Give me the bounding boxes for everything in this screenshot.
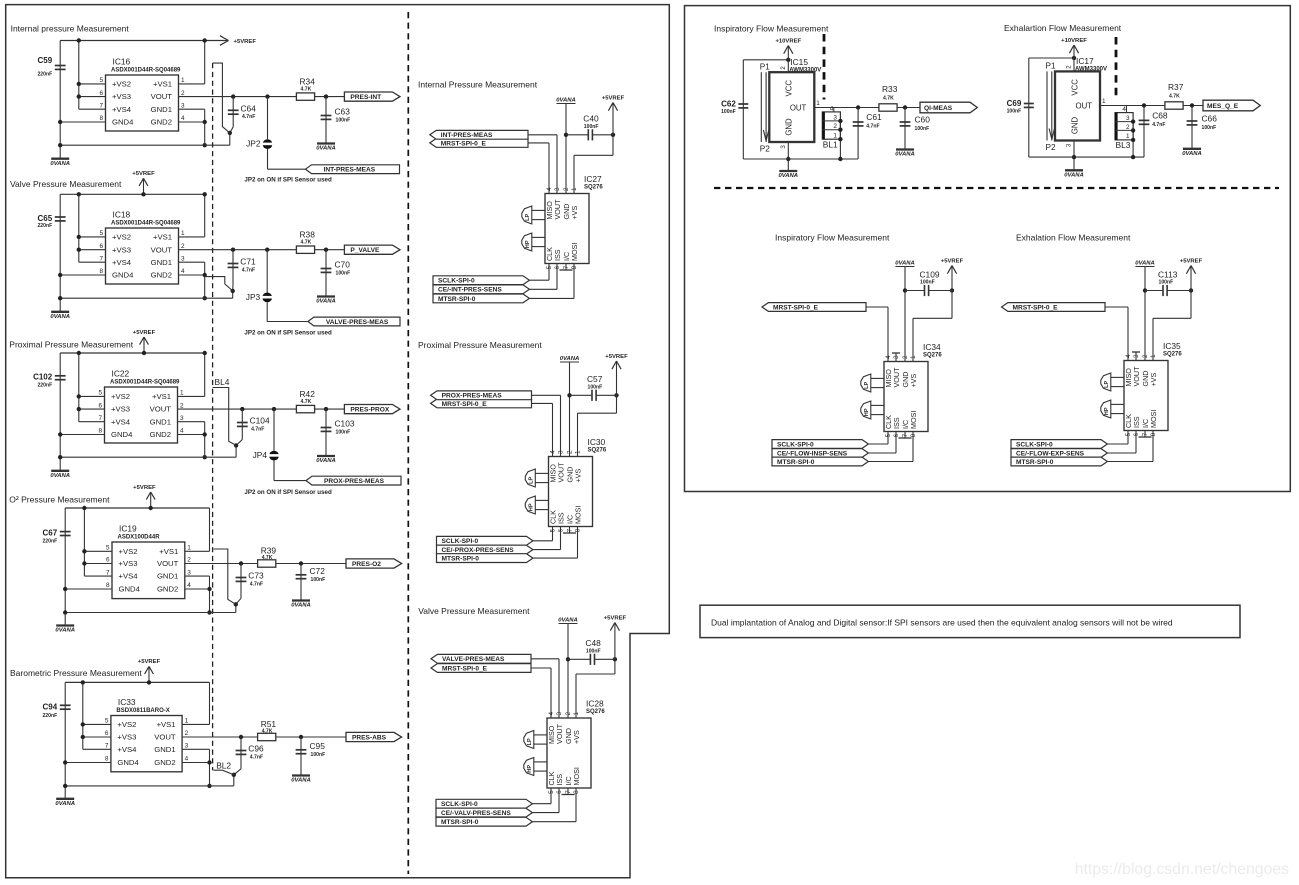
svg-text:+VS3: +VS3 — [111, 405, 130, 414]
svg-text:4: 4 — [181, 268, 185, 275]
svg-text:LP: LP — [527, 738, 533, 745]
svg-text:IC19: IC19 — [119, 524, 137, 534]
svg-text:+VS3: +VS3 — [112, 92, 131, 101]
svg-text:Exhalartion Flow Measurement: Exhalartion Flow Measurement — [1004, 23, 1122, 33]
svg-text:4.7nF: 4.7nF — [242, 114, 255, 120]
svg-text:6: 6 — [893, 433, 900, 437]
svg-text:4: 4 — [180, 428, 184, 435]
svg-text:PROX-PRES-MEAS: PROX-PRES-MEAS — [442, 393, 503, 400]
svg-text:3: 3 — [1126, 115, 1130, 122]
svg-text:8: 8 — [105, 756, 109, 763]
svg-text:VOUT: VOUT — [154, 733, 176, 742]
svg-text:VOUT: VOUT — [557, 462, 566, 483]
svg-text:C57: C57 — [587, 374, 603, 384]
svg-text:100nF: 100nF — [588, 384, 603, 390]
svg-text:2: 2 — [563, 187, 570, 191]
svg-text:4: 4 — [181, 115, 185, 122]
svg-text:100nF: 100nF — [311, 752, 326, 758]
svg-text:VCC: VCC — [1070, 79, 1079, 96]
svg-text:0VANA: 0VANA — [1135, 260, 1155, 266]
svg-text:MES_Q_E: MES_Q_E — [1207, 103, 1239, 110]
svg-text:INT-PRES-MEAS: INT-PRES-MEAS — [441, 132, 493, 139]
svg-text:ISS: ISS — [557, 512, 566, 524]
svg-text:MOSI: MOSI — [570, 243, 579, 261]
svg-text:C59: C59 — [38, 56, 53, 65]
svg-text:220nF: 220nF — [37, 223, 52, 229]
svg-text:2: 2 — [1142, 354, 1149, 358]
svg-text:JP2: JP2 — [246, 139, 261, 149]
svg-text:Dual implantation of Analog an: Dual implantation of Analog and Digital … — [711, 618, 1173, 628]
svg-text:+VS: +VS — [574, 469, 583, 483]
svg-text:+VS3: +VS3 — [117, 733, 136, 742]
svg-text:5: 5 — [99, 230, 103, 237]
svg-text:ASDX001D44R-SQ04689: ASDX001D44R-SQ04689 — [110, 379, 180, 385]
svg-text:1: 1 — [1102, 98, 1106, 105]
svg-text:3: 3 — [185, 743, 189, 750]
svg-text:MRST-SPI-0_E: MRST-SPI-0_E — [773, 304, 819, 311]
svg-text:Barometric Pressure Measuremen: Barometric Pressure Measurement — [10, 668, 142, 678]
svg-text:CE/-VALV-PRES-SENS: CE/-VALV-PRES-SENS — [441, 810, 511, 817]
svg-text:+VS1: +VS1 — [157, 720, 176, 729]
svg-text:P1: P1 — [760, 62, 770, 71]
svg-text:MRST-SPI-0_E: MRST-SPI-0_E — [441, 140, 487, 147]
svg-text:+VS3: +VS3 — [119, 559, 138, 568]
svg-text:C113: C113 — [1158, 269, 1178, 279]
svg-text:5: 5 — [548, 790, 555, 794]
svg-text:+VS4: +VS4 — [117, 745, 137, 754]
svg-text:ISS: ISS — [892, 417, 901, 429]
svg-text:R37: R37 — [1168, 82, 1184, 92]
svg-text:+VS1: +VS1 — [159, 547, 178, 556]
svg-text:+10VREF: +10VREF — [775, 39, 801, 45]
svg-text:+VS4: +VS4 — [112, 105, 132, 114]
svg-text:SQ276: SQ276 — [584, 184, 603, 190]
svg-text:+VS: +VS — [909, 374, 918, 388]
svg-text:8: 8 — [106, 582, 110, 589]
svg-text:220nF: 220nF — [42, 538, 57, 544]
svg-text:+5VREF: +5VREF — [133, 330, 156, 336]
svg-text:C64: C64 — [241, 104, 257, 114]
svg-text:VOUT: VOUT — [150, 405, 172, 414]
svg-text:6: 6 — [99, 90, 103, 97]
svg-text:VOUT: VOUT — [151, 245, 173, 254]
svg-text:+5VREF: +5VREF — [132, 171, 155, 177]
svg-text:100nF: 100nF — [1159, 280, 1174, 286]
svg-text:+VS: +VS — [572, 730, 581, 744]
svg-text:+5VREF: +5VREF — [138, 659, 161, 665]
svg-text:220nF: 220nF — [37, 382, 52, 388]
svg-text:7: 7 — [902, 433, 909, 437]
svg-text:1: 1 — [910, 355, 917, 359]
svg-text:5: 5 — [105, 718, 109, 725]
svg-text:0VANA: 0VANA — [316, 146, 336, 152]
svg-text:4: 4 — [546, 187, 553, 191]
svg-text:100nF: 100nF — [1202, 125, 1217, 131]
svg-text:GND2: GND2 — [151, 118, 172, 127]
svg-text:HP: HP — [1104, 407, 1110, 415]
svg-text:4.7K: 4.7K — [301, 239, 312, 245]
svg-text:7: 7 — [105, 743, 109, 750]
svg-text:1: 1 — [816, 100, 820, 107]
svg-text:4.7K: 4.7K — [262, 729, 273, 735]
svg-text:6: 6 — [556, 790, 563, 794]
svg-text:2: 2 — [1066, 65, 1073, 69]
svg-text:+5VREF: +5VREF — [604, 615, 627, 621]
svg-text:0VANA: 0VANA — [50, 473, 70, 479]
svg-text:LP: LP — [864, 381, 870, 388]
svg-text:4.7K: 4.7K — [262, 555, 273, 561]
svg-text:100nF: 100nF — [586, 648, 601, 654]
svg-text:R33: R33 — [882, 84, 898, 94]
svg-text:JP2 on ON if SPI Sensor used: JP2 on ON if SPI Sensor used — [244, 177, 332, 184]
svg-text:BSDX0811BARO-X: BSDX0811BARO-X — [116, 708, 169, 714]
svg-text:4: 4 — [885, 355, 892, 359]
svg-text:Proximal Pressure Measurement: Proximal Pressure Measurement — [418, 340, 542, 350]
svg-text:100nF: 100nF — [336, 118, 351, 124]
svg-text:P1: P1 — [1046, 62, 1056, 71]
svg-text:VALVE-PRES-MEAS: VALVE-PRES-MEAS — [442, 656, 505, 663]
svg-text:ASDX100D44R: ASDX100D44R — [118, 534, 161, 540]
svg-text:3: 3 — [556, 712, 563, 716]
svg-text:2: 2 — [780, 66, 787, 70]
svg-text:MRST-SPI-0_E: MRST-SPI-0_E — [1013, 304, 1059, 311]
svg-text:6: 6 — [558, 528, 565, 532]
svg-text:+10VREF: +10VREF — [1061, 38, 1087, 44]
svg-text:Exhalation Flow Measurement: Exhalation Flow Measurement — [1016, 233, 1131, 243]
svg-text:MRST-SPI-0_E: MRST-SPI-0_E — [442, 665, 488, 672]
svg-text:ISS: ISS — [553, 249, 562, 261]
svg-text:+VS: +VS — [570, 206, 579, 220]
svg-text:GND2: GND2 — [157, 585, 178, 594]
svg-text:Internal pressure Measurement: Internal pressure Measurement — [11, 24, 130, 34]
svg-text:IC33: IC33 — [118, 697, 136, 707]
svg-text:220nF: 220nF — [42, 713, 57, 719]
svg-text:4.7K: 4.7K — [1169, 93, 1180, 99]
svg-text:VALVE-PRES-MEAS: VALVE-PRES-MEAS — [326, 319, 389, 326]
svg-text:100nF: 100nF — [721, 109, 736, 115]
svg-text:4.7nF: 4.7nF — [242, 267, 255, 273]
svg-text:R38: R38 — [300, 230, 316, 240]
svg-text:1: 1 — [1126, 133, 1130, 140]
svg-text:+VS1: +VS1 — [152, 392, 171, 401]
svg-text:C60: C60 — [915, 115, 931, 125]
svg-text:IC28: IC28 — [586, 699, 604, 709]
svg-text:MOSI: MOSI — [909, 411, 918, 429]
svg-text:AWM3300V: AWM3300V — [789, 67, 821, 73]
svg-text:IC15: IC15 — [790, 57, 808, 67]
svg-text:Internal Pressure Measurement: Internal Pressure Measurement — [418, 80, 538, 90]
svg-text:1: 1 — [571, 187, 578, 191]
svg-text:6: 6 — [1133, 432, 1140, 436]
svg-text:IC18: IC18 — [113, 210, 131, 220]
svg-text:CE/-PROX-PRES-SENS: CE/-PROX-PRES-SENS — [442, 547, 515, 554]
svg-text:VOUT: VOUT — [553, 199, 562, 220]
svg-text:7: 7 — [99, 255, 103, 262]
svg-text:0VANA: 0VANA — [895, 260, 915, 266]
svg-text:3: 3 — [558, 450, 565, 454]
svg-text:C102: C102 — [33, 373, 53, 382]
svg-text:Inspiratory Flow Measurement: Inspiratory Flow Measurement — [775, 233, 890, 243]
svg-text:6: 6 — [106, 557, 110, 564]
svg-text:C63: C63 — [335, 107, 351, 117]
svg-text:5: 5 — [546, 265, 553, 269]
svg-text:IC35: IC35 — [1163, 341, 1181, 351]
svg-text:HP: HP — [528, 503, 534, 511]
svg-text:CE/-FLOW-EXP-SENS: CE/-FLOW-EXP-SENS — [1016, 450, 1085, 457]
svg-text:5: 5 — [885, 433, 892, 437]
svg-text:100nF: 100nF — [920, 280, 935, 286]
svg-text:Inspiratory Flow Measurement: Inspiratory Flow Measurement — [714, 24, 829, 34]
svg-text:C69: C69 — [1007, 99, 1022, 108]
svg-text:3: 3 — [893, 355, 900, 359]
svg-text:MOSI: MOSI — [574, 506, 583, 524]
svg-text:BL3: BL3 — [1116, 140, 1131, 150]
svg-text:4: 4 — [187, 582, 191, 589]
svg-text:IC22: IC22 — [112, 369, 130, 379]
svg-text:GND: GND — [785, 118, 794, 136]
svg-text:1: 1 — [1150, 354, 1157, 358]
svg-text:0VANA: 0VANA — [895, 152, 915, 158]
svg-text:8: 8 — [910, 433, 917, 437]
svg-text:GND1: GND1 — [150, 417, 171, 426]
svg-text:2: 2 — [181, 243, 185, 250]
svg-text:100nF: 100nF — [311, 577, 326, 583]
svg-text:VOUT: VOUT — [892, 367, 901, 388]
svg-text:4: 4 — [1122, 106, 1126, 113]
svg-text:100nF: 100nF — [915, 126, 930, 132]
svg-text:2: 2 — [185, 730, 189, 737]
svg-text:0VANA: 0VANA — [316, 458, 336, 464]
svg-text:0VANA: 0VANA — [560, 356, 580, 362]
svg-text:0VANA: 0VANA — [50, 161, 70, 167]
svg-text:MTSR-SPI-0: MTSR-SPI-0 — [777, 459, 815, 466]
svg-text:C109: C109 — [920, 269, 940, 279]
svg-text:+VS4: +VS4 — [112, 258, 132, 267]
svg-text:PROX-PRES-MEAS: PROX-PRES-MEAS — [324, 478, 385, 485]
svg-text:C65: C65 — [38, 214, 53, 223]
svg-text:GND4: GND4 — [119, 585, 141, 594]
svg-text:MTSR-SPI-0: MTSR-SPI-0 — [438, 296, 476, 303]
svg-text:IC17: IC17 — [1076, 56, 1094, 66]
svg-text:HP: HP — [527, 765, 533, 773]
svg-text:6: 6 — [105, 730, 109, 737]
svg-text:3: 3 — [833, 114, 837, 121]
svg-text:VOUT: VOUT — [151, 92, 173, 101]
svg-text:C71: C71 — [240, 257, 256, 267]
svg-text:5: 5 — [99, 77, 103, 84]
svg-text:QI-MEAS: QI-MEAS — [924, 105, 953, 112]
svg-text:+5VREF: +5VREF — [605, 354, 628, 360]
svg-text:3: 3 — [780, 145, 787, 149]
svg-text:+VS4: +VS4 — [119, 572, 139, 581]
svg-text:+VS3: +VS3 — [112, 245, 131, 254]
svg-text:HP: HP — [864, 408, 870, 416]
svg-text:PRES-O2: PRES-O2 — [352, 561, 381, 568]
svg-text:AWM3300V: AWM3300V — [1075, 67, 1107, 73]
svg-text:2: 2 — [565, 712, 572, 716]
svg-text:4.7K: 4.7K — [301, 399, 312, 405]
svg-text:8: 8 — [575, 528, 582, 532]
svg-text:1: 1 — [185, 718, 189, 725]
svg-text:GND1: GND1 — [151, 258, 172, 267]
svg-text:SQ276: SQ276 — [923, 352, 942, 358]
svg-text:1: 1 — [181, 77, 185, 84]
svg-text:CE/-FLOW-INSP-SENS: CE/-FLOW-INSP-SENS — [777, 450, 848, 457]
svg-text:0VANA: 0VANA — [1064, 173, 1084, 179]
svg-text:3: 3 — [187, 569, 191, 576]
svg-text:R34: R34 — [300, 76, 316, 86]
svg-text:SCLK-SPI-0: SCLK-SPI-0 — [777, 441, 814, 448]
svg-text:+VS1: +VS1 — [153, 233, 172, 242]
svg-text:4: 4 — [185, 756, 189, 763]
svg-text:0VANA: 0VANA — [291, 603, 311, 609]
svg-text:8: 8 — [573, 790, 580, 794]
svg-text:OUT: OUT — [1076, 102, 1093, 111]
svg-text:7: 7 — [99, 102, 103, 109]
svg-text:C48: C48 — [585, 638, 601, 648]
svg-text:+VS2: +VS2 — [112, 80, 131, 89]
svg-text:4: 4 — [550, 450, 557, 454]
svg-text:7: 7 — [567, 528, 574, 532]
svg-text:C96: C96 — [248, 744, 264, 754]
svg-text:4.7nF: 4.7nF — [1152, 122, 1165, 128]
svg-text:IC16: IC16 — [113, 57, 131, 67]
svg-text:+VS1: +VS1 — [153, 80, 172, 89]
svg-text:BL2: BL2 — [216, 761, 231, 771]
svg-text:JP2 on ON if SPI Sensor used: JP2 on ON if SPI Sensor used — [244, 489, 332, 496]
svg-text:MOSI: MOSI — [572, 767, 581, 785]
svg-text:C70: C70 — [335, 260, 351, 270]
svg-text:0VANA: 0VANA — [558, 617, 578, 623]
svg-text:ASDX001D44R-SQ04689: ASDX001D44R-SQ04689 — [111, 67, 181, 73]
svg-text:8: 8 — [571, 265, 578, 269]
svg-text:5: 5 — [98, 390, 102, 397]
svg-text:SQ276: SQ276 — [586, 709, 605, 715]
svg-text:PRES-ABS: PRES-ABS — [352, 734, 387, 741]
svg-text:+5VREF: +5VREF — [1180, 258, 1203, 264]
svg-text:2: 2 — [902, 355, 909, 359]
svg-text:4.7nF: 4.7nF — [250, 754, 263, 760]
svg-text:PRES-INT: PRES-INT — [350, 94, 381, 101]
svg-text:1: 1 — [187, 545, 191, 552]
svg-text:8: 8 — [1150, 432, 1157, 436]
svg-text:0VANA: 0VANA — [50, 314, 70, 320]
svg-text:GND2: GND2 — [154, 758, 175, 767]
svg-text:2: 2 — [180, 402, 184, 409]
svg-text:SCLK-SPI-0: SCLK-SPI-0 — [442, 538, 479, 545]
svg-text:3: 3 — [181, 255, 185, 262]
svg-text:7: 7 — [1142, 432, 1149, 436]
svg-text:0VANA: 0VANA — [779, 173, 799, 179]
svg-text:100nF: 100nF — [1007, 109, 1022, 115]
svg-text:LP: LP — [1104, 380, 1110, 387]
svg-text:3: 3 — [181, 102, 185, 109]
svg-text:C68: C68 — [1152, 110, 1168, 120]
svg-text:MTSR-SPI-0: MTSR-SPI-0 — [441, 819, 479, 826]
svg-text:SQ276: SQ276 — [588, 447, 607, 453]
svg-text:0VANA: 0VANA — [291, 778, 311, 784]
svg-text:0VANA: 0VANA — [1182, 151, 1202, 157]
svg-text:7: 7 — [106, 569, 110, 576]
svg-text:GND4: GND4 — [112, 271, 134, 280]
svg-text:2: 2 — [833, 123, 837, 130]
svg-text:JP2 on ON if SPI Sensor used: JP2 on ON if SPI Sensor used — [244, 330, 332, 337]
svg-text:C61: C61 — [866, 112, 882, 122]
svg-text:100nF: 100nF — [336, 271, 351, 277]
svg-text:8: 8 — [98, 428, 102, 435]
svg-text:4.7K: 4.7K — [301, 86, 312, 92]
svg-text:SCLK-SPI-0: SCLK-SPI-0 — [1016, 441, 1053, 448]
svg-text:3: 3 — [554, 187, 561, 191]
svg-text:IC27: IC27 — [584, 174, 602, 184]
svg-text:6: 6 — [98, 402, 102, 409]
svg-text:+5VREF: +5VREF — [133, 485, 156, 491]
svg-text:C40: C40 — [583, 114, 599, 124]
svg-text:ISS: ISS — [555, 774, 564, 786]
svg-text:BL4: BL4 — [215, 377, 230, 387]
svg-text:8: 8 — [99, 268, 103, 275]
svg-text:1: 1 — [181, 230, 185, 237]
svg-text:C94: C94 — [43, 703, 58, 712]
svg-text:4: 4 — [830, 105, 834, 112]
svg-text:4: 4 — [548, 712, 555, 716]
svg-text:O² Pressure Measurement: O² Pressure Measurement — [9, 495, 110, 505]
svg-text:P_VALVE: P_VALVE — [350, 247, 380, 254]
svg-text:MOSI: MOSI — [1149, 410, 1158, 428]
svg-text:IC34: IC34 — [923, 342, 941, 352]
svg-text:PRES-PROX: PRES-PROX — [350, 407, 389, 414]
svg-text:BL1: BL1 — [823, 140, 838, 150]
svg-text:4: 4 — [1125, 354, 1132, 358]
svg-text:IC30: IC30 — [588, 437, 606, 447]
svg-text:220nF: 220nF — [37, 71, 52, 77]
svg-text:GND2: GND2 — [150, 430, 171, 439]
svg-text:INT-PRES-MEAS: INT-PRES-MEAS — [324, 167, 376, 174]
svg-text:+VS2: +VS2 — [111, 392, 130, 401]
svg-text:7: 7 — [565, 790, 572, 794]
svg-text:3: 3 — [180, 415, 184, 422]
svg-text:1: 1 — [833, 132, 837, 139]
svg-text:LP: LP — [525, 213, 531, 220]
svg-text:+5VREF: +5VREF — [602, 95, 625, 101]
svg-text:C103: C103 — [335, 419, 355, 429]
svg-text:C72: C72 — [310, 566, 326, 576]
svg-text:R42: R42 — [300, 389, 316, 399]
svg-text:CE/-INT-PRES-SENS: CE/-INT-PRES-SENS — [438, 287, 502, 294]
svg-text:+5VREF: +5VREF — [941, 258, 964, 264]
svg-text:P2: P2 — [1046, 143, 1056, 152]
svg-text:VCC: VCC — [785, 80, 794, 97]
svg-text:JP3: JP3 — [246, 292, 261, 302]
svg-text:C104: C104 — [250, 416, 270, 426]
svg-text:0VANA: 0VANA — [55, 801, 75, 807]
svg-text:VOUT: VOUT — [157, 559, 179, 568]
svg-text:+5VREF: +5VREF — [234, 39, 257, 45]
svg-text:1: 1 — [575, 450, 582, 454]
svg-text:2: 2 — [187, 557, 191, 564]
svg-text:Valve Pressure Measurement: Valve Pressure Measurement — [10, 179, 122, 189]
svg-text:5: 5 — [106, 545, 110, 552]
svg-text:5: 5 — [1125, 432, 1132, 436]
svg-text:0VANA: 0VANA — [316, 299, 336, 305]
svg-text:JP4: JP4 — [253, 450, 268, 460]
svg-text:4.7nF: 4.7nF — [866, 124, 879, 130]
svg-text:https://blog.csdn.net/chengoes: https://blog.csdn.net/chengoes — [1075, 861, 1289, 878]
svg-text:C67: C67 — [43, 528, 58, 537]
svg-text:6: 6 — [99, 243, 103, 250]
svg-text:MTSR-SPI-0: MTSR-SPI-0 — [1016, 459, 1054, 466]
svg-text:GND1: GND1 — [154, 745, 175, 754]
